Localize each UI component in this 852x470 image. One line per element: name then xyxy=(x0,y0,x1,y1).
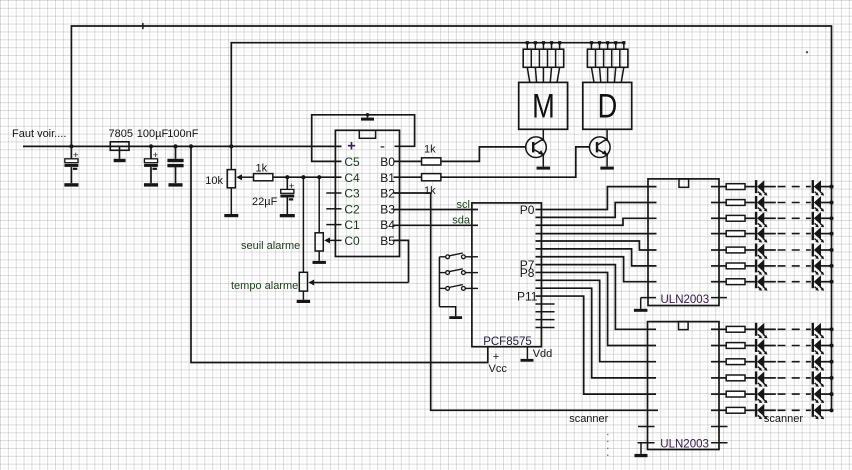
svg-text:C4: C4 xyxy=(344,171,360,185)
svg-text:C2: C2 xyxy=(344,202,360,216)
svg-text:+: + xyxy=(153,150,159,161)
svg-text:+: + xyxy=(347,138,355,154)
svg-text:+: + xyxy=(73,150,79,161)
svg-text:22µF: 22µF xyxy=(252,196,278,208)
svg-text:-: - xyxy=(380,138,385,155)
svg-text:Vdd: Vdd xyxy=(533,348,553,360)
svg-text:7805: 7805 xyxy=(109,128,133,140)
svg-text:B0: B0 xyxy=(380,155,395,169)
svg-text:ULN2003: ULN2003 xyxy=(660,438,709,450)
svg-text:P8: P8 xyxy=(520,266,535,280)
svg-text:scanner: scanner xyxy=(569,413,608,425)
svg-text:C0: C0 xyxy=(344,234,360,248)
svg-text:100µF: 100µF xyxy=(137,128,169,140)
svg-text:scl: scl xyxy=(457,199,470,211)
svg-text:100nF: 100nF xyxy=(167,128,198,140)
svg-text:C3: C3 xyxy=(344,187,360,201)
svg-text:1k: 1k xyxy=(424,185,436,197)
svg-text:C5: C5 xyxy=(344,155,360,169)
svg-text:B5: B5 xyxy=(380,234,395,248)
svg-text:Vcc: Vcc xyxy=(489,363,508,375)
svg-text:B3: B3 xyxy=(380,202,395,216)
svg-text:+: + xyxy=(289,181,295,192)
svg-text:1k: 1k xyxy=(424,144,436,156)
svg-text:D: D xyxy=(598,87,618,126)
svg-text:P0: P0 xyxy=(520,203,535,217)
svg-text:ULN2003: ULN2003 xyxy=(661,294,710,306)
svg-text:P11: P11 xyxy=(517,290,538,304)
svg-text:+: + xyxy=(493,351,499,363)
svg-text:seuil alarme: seuil alarme xyxy=(241,240,300,252)
svg-text:scanner: scanner xyxy=(764,413,803,425)
svg-text:PCF8575: PCF8575 xyxy=(483,336,532,348)
svg-text:tempo alarme: tempo alarme xyxy=(231,280,298,292)
svg-text:C1: C1 xyxy=(344,218,360,232)
svg-text:B2: B2 xyxy=(380,187,395,201)
svg-text:10k: 10k xyxy=(205,175,223,187)
svg-text:sda: sda xyxy=(452,215,471,227)
svg-text:M: M xyxy=(532,87,555,126)
svg-text:1k: 1k xyxy=(256,163,268,175)
svg-text:B4: B4 xyxy=(380,218,395,232)
svg-text:B1: B1 xyxy=(380,171,395,185)
svg-text:Faut voir....: Faut voir.... xyxy=(12,128,66,140)
